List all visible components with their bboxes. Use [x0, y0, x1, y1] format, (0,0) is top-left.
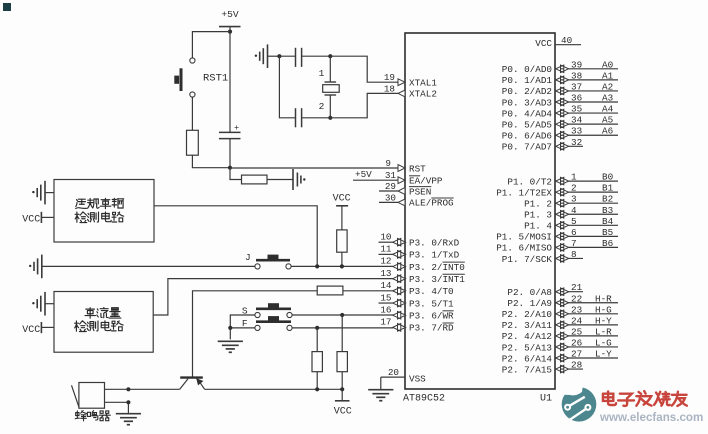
wire XTAL2 node to chip pin 18 [330, 93, 398, 117]
wire S/F common to ground [230, 315, 255, 339]
svg-text:B5: B5 [602, 227, 613, 238]
wire transistor base to P3.4 row [193, 291, 318, 378]
transistor Q1 [180, 376, 203, 378]
svg-text:VCC: VCC [535, 38, 552, 49]
svg-text:P2. 5/A13: P2. 5/A13 [502, 342, 552, 353]
svg-text:39: 39 [571, 59, 582, 70]
ground (box2) [45, 303, 54, 305]
corner mark [3, 3, 11, 11]
wire ground to pushbutton J [42, 265, 255, 267]
svg-text:P3. 7/RD: P3. 7/RD [409, 323, 454, 334]
svg-text:2: 2 [571, 183, 577, 194]
svg-text:+: + [234, 123, 239, 133]
svg-text:P3. 4/T0: P3. 4/T0 [409, 286, 454, 297]
wire crystal pin 1 [329, 56, 331, 82]
svg-text:14: 14 [380, 280, 392, 291]
wire crystal pin 2 [329, 95, 331, 118]
wire box1 output to P3.2 net [154, 206, 317, 267]
resistor (INT0 pull-up) [337, 230, 347, 252]
svg-text:P1. 1/T2EX: P1. 1/T2EX [496, 187, 552, 198]
svg-text:VCC: VCC [22, 325, 40, 336]
svg-text:13: 13 [380, 268, 391, 279]
svg-text:38: 38 [571, 70, 582, 81]
wire RST node down to series resistor [230, 168, 242, 180]
svg-text:10: 10 [380, 231, 391, 242]
svg-text:P2. 0/A8: P2. 0/A8 [507, 287, 552, 298]
node buzzer junction [126, 387, 130, 391]
svg-text:VCC: VCC [333, 194, 351, 205]
wire RST1 to resistor [191, 97, 193, 130]
wire +5V to pin 31 [353, 179, 398, 181]
pin 33 P0.6/AD6 net A6 [555, 134, 618, 136]
resistor (T0 series) [317, 286, 343, 295]
wire resistor to RST node [192, 155, 230, 168]
svg-text:+5V: +5V [221, 9, 239, 20]
svg-text:VSS: VSS [409, 373, 426, 384]
svg-text:+5V: +5V [355, 169, 372, 180]
pushbutton J [256, 259, 290, 262]
svg-text:P1. 3: P1. 3 [524, 210, 552, 221]
svg-text:EA/VPP: EA/VPP [409, 176, 443, 187]
svg-text:P0. 2/AD2: P0. 2/AD2 [502, 86, 552, 97]
node XTAL1 junction [328, 54, 332, 58]
svg-text:8: 8 [571, 249, 577, 260]
capacitor C2 [295, 108, 297, 127]
node RST junction [228, 166, 232, 170]
svg-text:25: 25 [571, 326, 582, 337]
label 蜂鸣器 [75, 411, 86, 421]
resistor (reset series) [242, 175, 268, 184]
svg-text:VCC: VCC [22, 214, 40, 225]
wire box2 output to P3.3 (pin 13) [153, 279, 393, 315]
wire J to chip pin 12 [291, 265, 393, 267]
svg-text:A2: A2 [602, 81, 613, 92]
svg-text:B1: B1 [602, 183, 614, 194]
svg-text:P3. 3/INT1: P3. 3/INT1 [409, 274, 465, 285]
svg-text:AT89C52: AT89C52 [403, 394, 445, 405]
node P3.2/pull-up junction [340, 264, 344, 268]
svg-text:30: 30 [385, 192, 396, 203]
ground (oscillator) [267, 44, 269, 68]
svg-text:20: 20 [388, 367, 399, 378]
wire buzzer to transistor emitter [105, 388, 180, 390]
svg-text:5: 5 [571, 216, 577, 227]
svg-text:P0. 7/AD7: P0. 7/AD7 [502, 142, 552, 153]
svg-text:L-G: L-G [595, 337, 612, 348]
ground (reset) [292, 169, 294, 190]
svg-text:P3. 0/RxD: P3. 0/RxD [409, 238, 460, 249]
wire F to chip pin 17 [292, 327, 393, 329]
svg-text:P1. 4: P1. 4 [524, 221, 552, 232]
node S/F ground junction [228, 326, 232, 330]
svg-text:P2. 1/A9: P2. 1/A9 [507, 298, 552, 309]
pin 36 P0.3/AD3 net A3 [555, 101, 618, 103]
buzzer [79, 383, 105, 409]
svg-text:XTAL2: XTAL2 [409, 89, 437, 100]
svg-text:RST: RST [409, 163, 426, 174]
pin 26 P2.5/A13 net L-G [555, 346, 618, 348]
svg-text:RST1: RST1 [203, 73, 228, 85]
svg-text:32: 32 [571, 137, 582, 148]
svg-text:19: 19 [384, 72, 395, 83]
wire +5V down to capacitor [229, 27, 231, 133]
svg-text:H-Y: H-Y [595, 315, 612, 326]
wire resistor to chip pin 14 [343, 290, 393, 292]
svg-text:1: 1 [319, 68, 325, 79]
svg-text:P2. 2/A10: P2. 2/A10 [502, 309, 552, 320]
block: 违规车辆检测电路 (violation vehicle detection) [54, 180, 154, 243]
capacitor C (electrolytic, reset) [219, 131, 241, 133]
resistor (P3.7 pull-up) [312, 352, 322, 372]
wire P3.7 junction down to resistor [316, 328, 318, 352]
svg-text:H-R: H-R [595, 293, 612, 304]
svg-text:B4: B4 [602, 216, 614, 227]
svg-text:L-Y: L-Y [595, 349, 612, 360]
svg-text:A6: A6 [602, 126, 613, 137]
wire P3.6 junction down to resistor [341, 315, 343, 352]
svg-text:27: 27 [571, 349, 582, 360]
pin 38 P0.1/AD1 net A1 [555, 79, 618, 81]
resistor (reset pull-down) [187, 130, 199, 155]
svg-text:31: 31 [385, 170, 397, 181]
svg-text:P3. 5/T1: P3. 5/T1 [409, 298, 454, 309]
wire XTAL2 node to capacitor C2 [302, 117, 331, 119]
pin 6 P1.5/MOSI net B5 [555, 235, 618, 237]
wire S to chip pin 16 [292, 314, 393, 316]
ground (box1) [45, 192, 54, 194]
capacitor C1 [295, 48, 297, 67]
ground (VSS) [368, 389, 393, 391]
svg-text:26: 26 [571, 337, 582, 348]
svg-text:P1. 7/SCK: P1. 7/SCK [502, 254, 553, 265]
svg-text:36: 36 [571, 93, 582, 104]
svg-text:21: 21 [571, 282, 583, 293]
pin 32 P0.7/AD7 [555, 145, 583, 147]
svg-text:35: 35 [571, 104, 582, 115]
pin 2 P1.1/T2EX net B1 [555, 191, 618, 193]
svg-text:4: 4 [571, 205, 577, 216]
IC U1 AT89C52 body [405, 33, 555, 389]
VCC symbol (bottom rail) [341, 389, 343, 401]
node P3.2/box1 junction [315, 264, 319, 268]
pin 35 P0.4/AD4 net A4 [555, 112, 618, 114]
wire node to capacitor C1 [279, 55, 295, 57]
svg-text:B0: B0 [602, 172, 613, 183]
node osc ground junction [277, 54, 281, 58]
ground (S/F buttons) [218, 340, 243, 342]
svg-text:23: 23 [571, 304, 582, 315]
wire resistor to VCC rail [316, 372, 318, 390]
pin 27 P2.6/A14 net L-Y [555, 357, 618, 359]
pin 5 P1.4 net B4 [555, 224, 618, 226]
wire XTAL1 node to chip pin 19 [330, 56, 398, 82]
wire VCC to resistor [341, 206, 343, 230]
svg-text:A0: A0 [602, 59, 613, 70]
pushbutton RST1 [190, 58, 195, 63]
wire VCC rail (transistor collector) [205, 388, 343, 390]
svg-text:28: 28 [571, 360, 582, 371]
svg-text:A4: A4 [602, 104, 614, 115]
pin 3 P1.2 net B2 [555, 202, 618, 204]
svg-text:H-G: H-G [595, 304, 612, 315]
pushbutton F [256, 320, 291, 323]
pin 28 P2.7/A15 [555, 368, 583, 370]
pin 1 P1.0/T2 net B0 [555, 180, 618, 182]
pin 25 P2.4/A12 net L-R [555, 335, 618, 337]
svg-text:B2: B2 [602, 194, 613, 205]
node P3.6/pull-up junction [340, 313, 344, 317]
node rail/P3.7 resistor [315, 387, 319, 391]
svg-text:34: 34 [571, 115, 583, 126]
svg-text:B6: B6 [602, 238, 613, 249]
svg-text:18: 18 [384, 83, 395, 94]
svg-text:A3: A3 [602, 93, 613, 104]
pin 23 P2.2/A10 net H-G [555, 313, 618, 315]
wire capacitor to RST node [229, 139, 231, 168]
pin 8 P1.7/SCK [555, 257, 583, 259]
pin 22 P2.1/A9 net H-R [555, 302, 618, 304]
wire ground to node [268, 55, 280, 57]
pin 37 P0.2/AD2 net A2 [555, 90, 618, 92]
pin 7 P1.6/MISO net B6 [555, 246, 618, 248]
svg-text:P0. 4/AD4: P0. 4/AD4 [502, 108, 553, 119]
node rail/P3.6 resistor [340, 387, 344, 391]
svg-text:J: J [245, 252, 251, 263]
svg-text:www.elecfans.com: www.elecfans.com [599, 411, 703, 424]
svg-text:A5: A5 [602, 115, 613, 126]
ground (buzzer) [116, 413, 141, 415]
svg-text:P2. 4/A12: P2. 4/A12 [502, 331, 552, 342]
svg-text:P2. 3/A11: P2. 3/A11 [502, 320, 553, 331]
svg-text:P0. 0/AD0: P0. 0/AD0 [502, 64, 552, 75]
svg-text:1: 1 [571, 172, 577, 183]
svg-text:6: 6 [571, 227, 577, 238]
svg-text:B3: B3 [602, 205, 613, 216]
pin 4 P1.3 net B3 [555, 213, 618, 215]
svg-text:P3. 1/TxD: P3. 1/TxD [409, 250, 460, 261]
node P3.7/pull-up junction [315, 326, 319, 330]
pin 24 P2.3/A11 net H-Y [555, 324, 618, 326]
pin 34 P0.5/AD5 net A5 [555, 123, 618, 125]
svg-text:29: 29 [385, 181, 396, 192]
svg-text:P3. 2/INT0: P3. 2/INT0 [409, 262, 465, 273]
wire C1 to XTAL1 node [302, 55, 331, 57]
svg-text:15: 15 [380, 292, 391, 303]
wire buzzer to ground [105, 402, 129, 413]
svg-text:P1. 0/T2: P1. 0/T2 [507, 176, 552, 187]
node XTAL2 junction [328, 116, 332, 120]
svg-text:P1. 5/MOSI: P1. 5/MOSI [496, 232, 552, 243]
svg-text:P2. 7/A15: P2. 7/A15 [502, 364, 552, 375]
svg-text:L-R: L-R [595, 326, 612, 337]
resistor (P3.6 pull-up) [337, 352, 347, 372]
svg-text:U1: U1 [540, 394, 552, 405]
block: 车流量检测电路 (traffic flow detection) [54, 292, 153, 353]
wire resistor to ground [267, 179, 293, 181]
crystal Y1 [325, 81, 337, 83]
svg-text:P0. 6/AD6: P0. 6/AD6 [502, 131, 552, 142]
wire C2 to ground branch [279, 56, 295, 118]
ground (J input) [41, 255, 43, 279]
svg-text:37: 37 [571, 81, 582, 92]
svg-text:A1: A1 [602, 70, 614, 81]
wire VSS to ground [380, 377, 382, 389]
svg-text:7: 7 [571, 238, 577, 249]
svg-text:P1. 6/MISO: P1. 6/MISO [496, 243, 552, 254]
svg-text:PSEN: PSEN [409, 186, 431, 197]
svg-text:12: 12 [380, 256, 391, 267]
pushbutton S [256, 307, 291, 310]
svg-text:24: 24 [571, 315, 583, 326]
svg-text:40: 40 [561, 35, 572, 46]
svg-text:3: 3 [571, 194, 577, 205]
node +5V junction [228, 30, 232, 34]
svg-text:ALE/PROG: ALE/PROG [409, 198, 454, 209]
svg-text:P3. 6/WR: P3. 6/WR [409, 311, 454, 322]
wire resistor to VCC rail [341, 372, 343, 390]
watermark logo [562, 381, 597, 422]
wire +5V to pushbutton RST1 [192, 32, 230, 58]
node buzzer ground junction [126, 400, 130, 404]
svg-text:XTAL1: XTAL1 [409, 78, 437, 89]
svg-text:P1. 2: P1. 2 [524, 199, 552, 210]
svg-text:P0. 5/AD5: P0. 5/AD5 [502, 119, 552, 130]
pin 39 P0.0/AD0 net A0 [555, 68, 618, 70]
svg-text:11: 11 [380, 244, 392, 255]
svg-text:17: 17 [380, 317, 391, 328]
svg-text:22: 22 [571, 293, 582, 304]
svg-text:16: 16 [380, 304, 391, 315]
svg-text:P0. 3/AD3: P0. 3/AD3 [502, 97, 552, 108]
svg-text:VCC: VCC [334, 406, 352, 417]
wire RST node to chip pin 9 [230, 167, 398, 169]
svg-text:33: 33 [571, 126, 582, 137]
pin 21 P2.0/A8 [555, 291, 583, 293]
svg-text:2: 2 [319, 101, 325, 112]
svg-text:P0. 1/AD1: P0. 1/AD1 [502, 75, 553, 86]
svg-text:9: 9 [385, 158, 391, 169]
wire resistor to P3.2 net [341, 252, 343, 266]
svg-text:P2. 6/A14: P2. 6/A14 [502, 353, 553, 364]
